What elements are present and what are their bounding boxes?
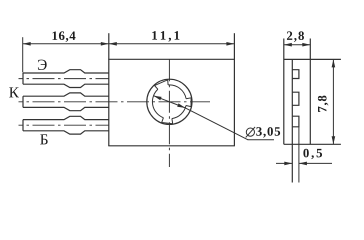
lead label K: [9, 87, 19, 97]
side view lead tab 1: [292, 70, 299, 79]
dimension text 3,05: [256, 127, 280, 137]
side view lead tab 3: [292, 116, 299, 127]
horizontal centerline (lead K axis): [19, 101, 211, 103]
lead K (collector): [23, 93, 109, 111]
diameter symbol: [246, 127, 255, 137]
dimension 0,5: [276, 162, 332, 166]
dimension 11,1: [109, 42, 235, 46]
vertical centerline: [168, 59, 170, 167]
dimension text 2,8: [287, 31, 304, 41]
lead label E: [38, 60, 47, 70]
hole diameter leader line: [154, 96, 186, 108]
mounting hole outer circle: [147, 79, 192, 124]
lead label B: [40, 134, 48, 144]
keyed hole inner circle with three slots: [152, 80, 191, 124]
side view lead tab 2: [292, 92, 299, 105]
extension of tab edge for 0,5: [298, 127, 300, 183]
dimension 16,4: [23, 37, 109, 72]
dimension text 16,4: [53, 31, 76, 41]
dimension text 11,1: [152, 31, 179, 41]
dimension 7,8: [332, 59, 336, 144]
dimension text 0,5: [303, 149, 322, 159]
dimension 2,8: [284, 43, 311, 47]
transistor body front view: [108, 33, 235, 146]
dimension text 7,8 (rotated): [318, 96, 328, 112]
side view outline: [284, 39, 341, 183]
lead E (emitter): [19, 70, 109, 88]
lead B (base): [19, 116, 109, 134]
